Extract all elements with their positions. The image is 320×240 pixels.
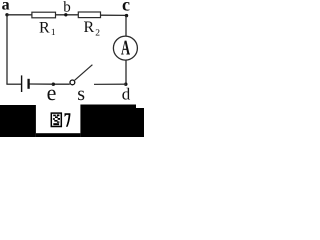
resistor R1 xyxy=(32,12,56,18)
node c xyxy=(125,14,128,17)
wire ammeter to d xyxy=(125,60,127,84)
caption banner right corner black block xyxy=(136,108,144,137)
wire a to R1 xyxy=(7,14,32,16)
caption character tu (图) inner strokes xyxy=(53,114,60,125)
left vertical wire xyxy=(6,15,8,84)
wire corner to battery xyxy=(6,83,21,85)
svg-text:d: d xyxy=(122,85,131,104)
wire e to switch xyxy=(53,83,70,85)
caption banner left black block xyxy=(0,105,36,137)
node e xyxy=(52,83,55,86)
svg-text:A: A xyxy=(121,35,131,59)
battery long plate xyxy=(21,75,23,92)
svg-text:s: s xyxy=(77,83,85,105)
node a xyxy=(5,13,8,16)
svg-text:2: 2 xyxy=(95,28,100,38)
wire R1 to R2 xyxy=(56,14,78,16)
switch pivot xyxy=(70,80,75,85)
ammeter A1 xyxy=(113,36,137,60)
svg-text:1: 1 xyxy=(51,28,56,38)
caption character tu (图) outer box xyxy=(51,113,61,126)
caption banner right black block xyxy=(80,105,136,138)
resistor R2 xyxy=(78,12,100,18)
wire R2 to node c xyxy=(101,14,127,16)
node d xyxy=(124,83,127,86)
svg-text:a: a xyxy=(2,0,10,14)
svg-text:R: R xyxy=(84,19,95,36)
wire battery to e xyxy=(29,83,53,85)
svg-text:b: b xyxy=(63,0,70,16)
svg-text:R: R xyxy=(39,20,50,37)
caption digit 7 xyxy=(65,113,71,127)
wire d to switch xyxy=(94,83,126,85)
wire c to ammeter xyxy=(125,15,127,36)
caption banner bottom black strip under label box xyxy=(36,133,81,137)
switch lever xyxy=(75,65,93,81)
battery short plate xyxy=(27,79,29,89)
node b xyxy=(64,13,67,16)
svg-text:c: c xyxy=(122,0,130,15)
